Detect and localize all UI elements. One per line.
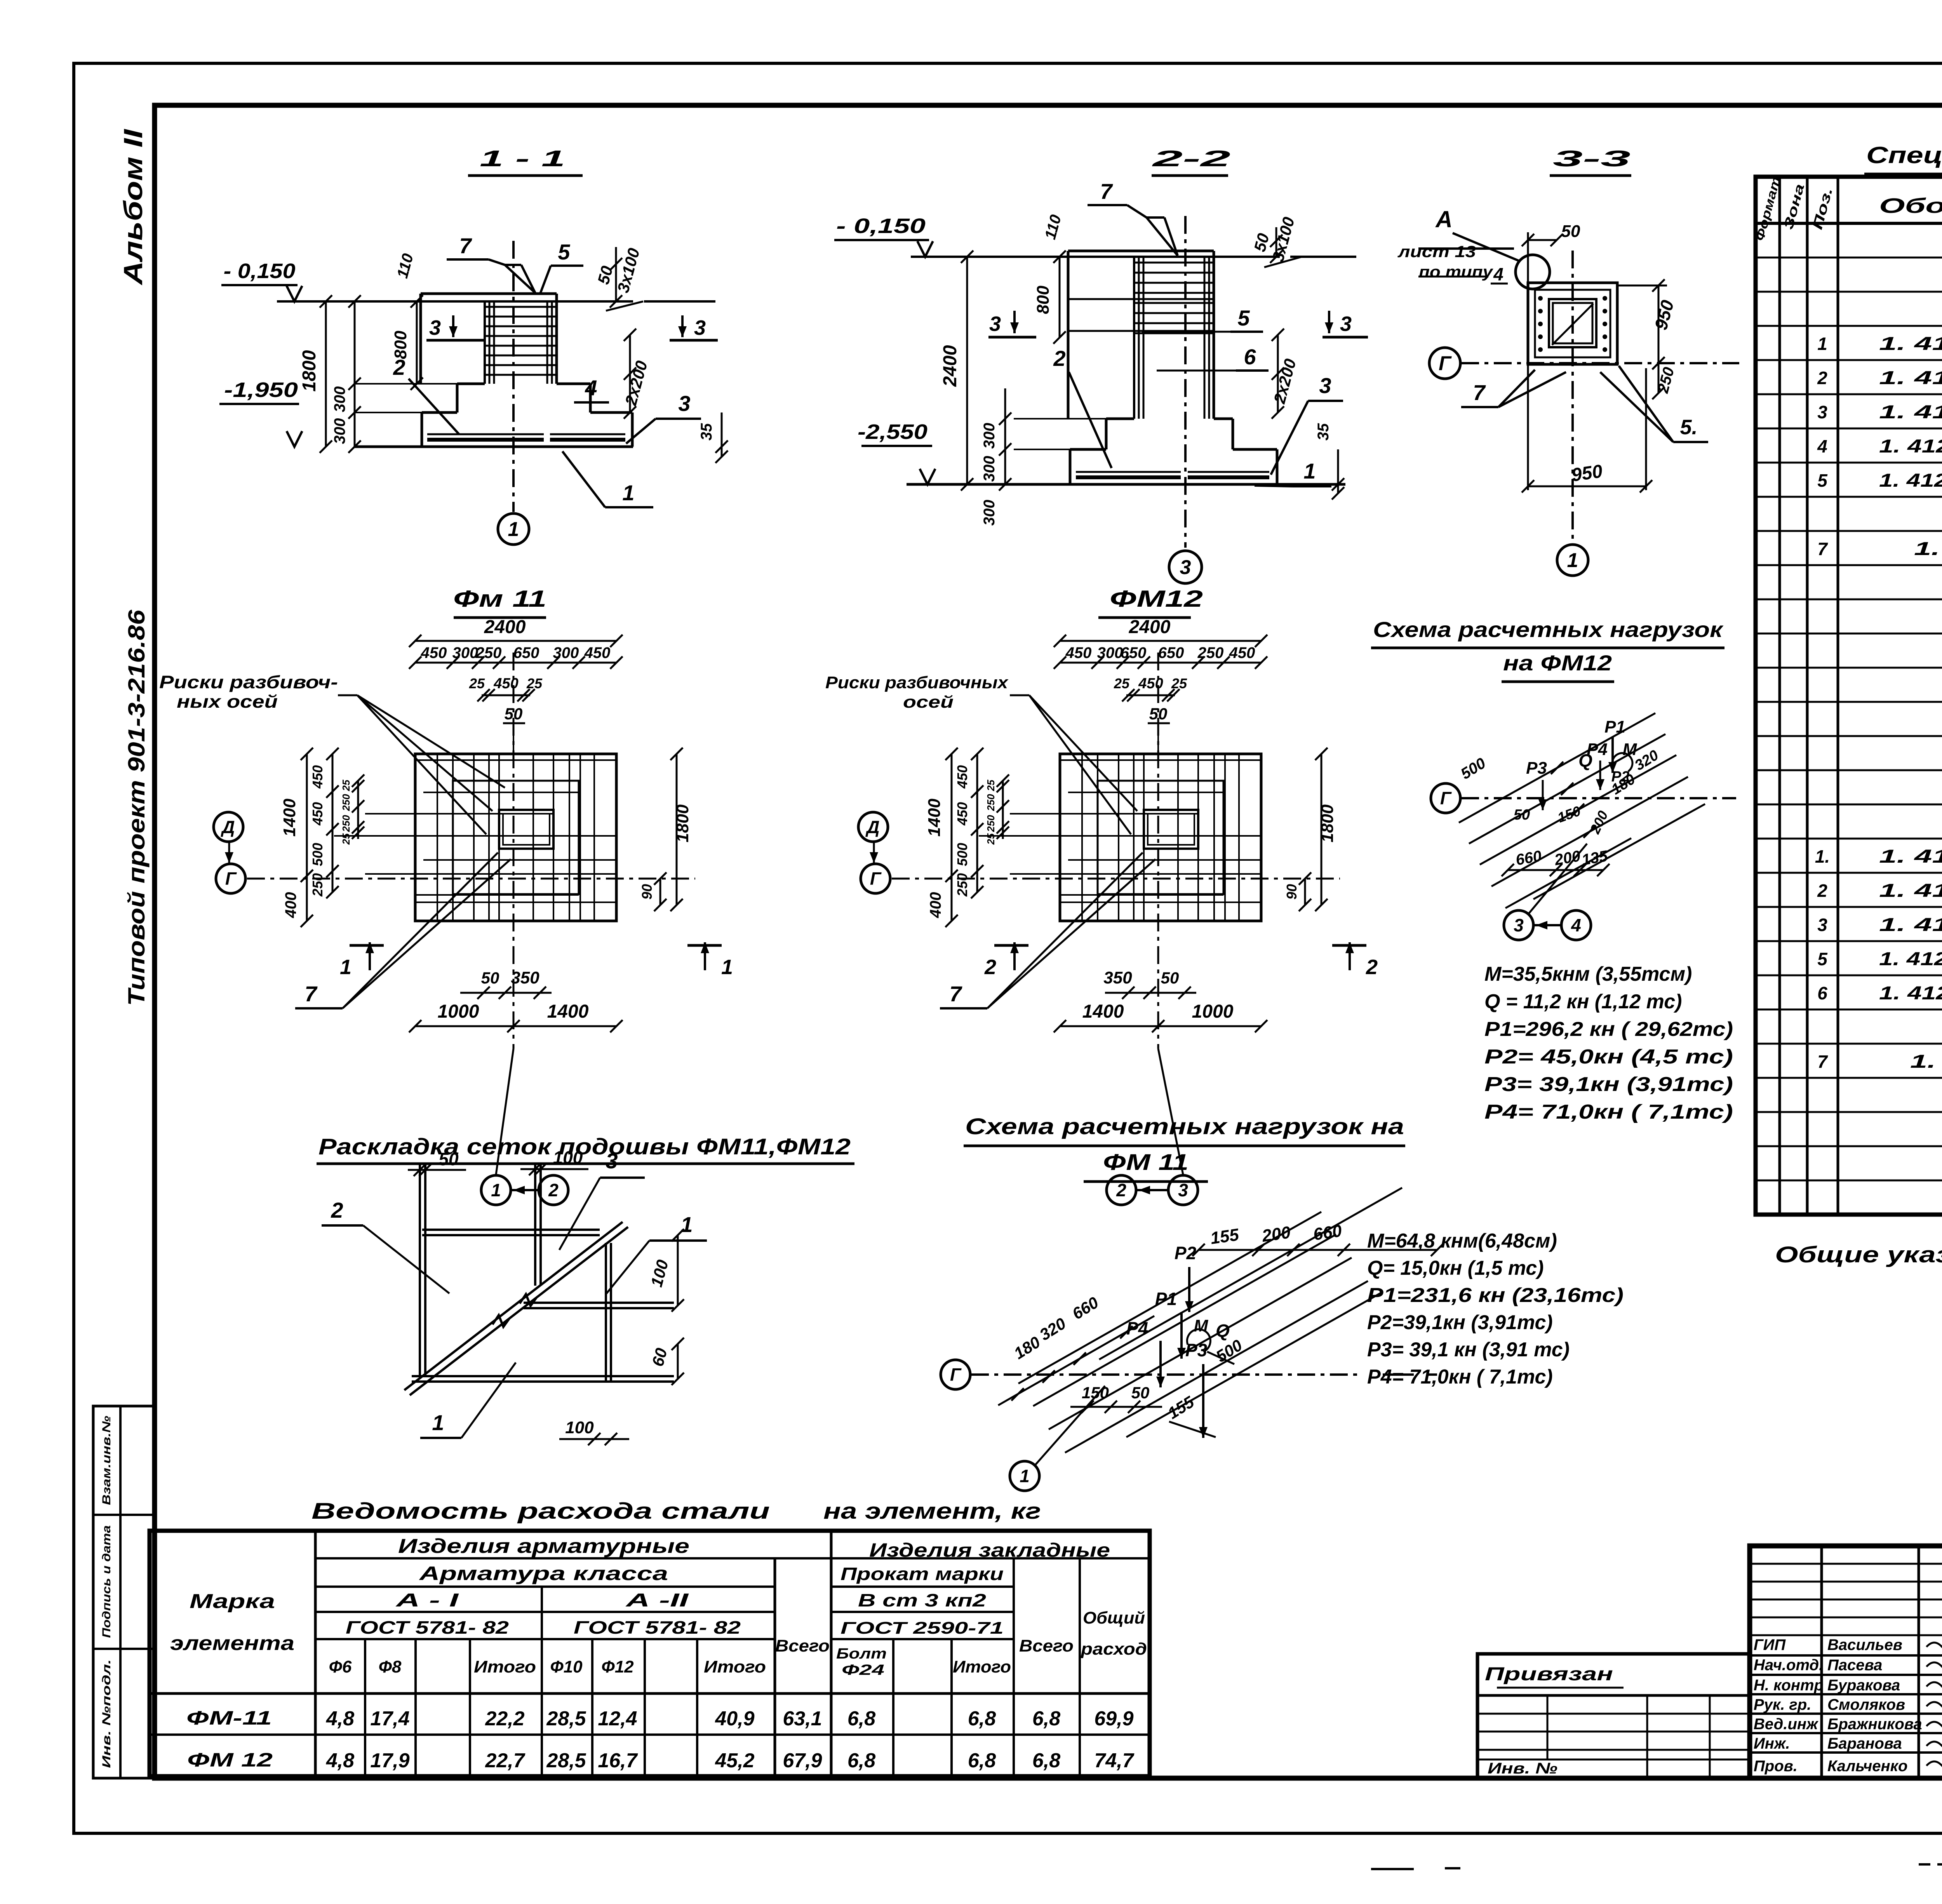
svg-text:6,8: 6,8: [1032, 1707, 1060, 1730]
svg-text:Марка: Марка: [190, 1590, 275, 1613]
load scheme FM11 left diagonal dims: [998, 1316, 1154, 1405]
svg-text:1. 412- 1/77 вып.3: 1. 412- 1/77 вып.3: [1879, 436, 1942, 457]
mesh layout dim 50 top: [408, 1169, 466, 1171]
svg-text:6: 6: [1817, 983, 1827, 1003]
svg-text:1: 1: [432, 1410, 444, 1435]
svg-text:Р4: Р4: [1587, 740, 1608, 759]
svg-text:Привязан: Привязан: [1485, 1664, 1613, 1685]
svg-text:650: 650: [513, 644, 539, 661]
load scheme FM11 axonometric lines: [1018, 1212, 1321, 1384]
svg-text:450: 450: [954, 765, 970, 789]
load scheme FM11 top dim: [1199, 1249, 1437, 1251]
svg-text:3: 3: [1178, 1180, 1188, 1200]
svg-text:2: 2: [548, 1180, 559, 1200]
svg-text:69,9: 69,9: [1094, 1707, 1133, 1730]
svg-text:1: 1: [622, 480, 634, 505]
load scheme FM11 axis Г: [941, 1360, 970, 1389]
left margin stamp boxes: [93, 1406, 155, 1778]
svg-text:Д: Д: [220, 817, 235, 837]
svg-text:400: 400: [927, 892, 944, 919]
svg-text:50: 50: [439, 1149, 459, 1169]
section 2-2 dim 35 right: [1337, 449, 1339, 493]
svg-text:Г: Г: [950, 1364, 962, 1385]
section 3-3 dim 50 top: [1527, 232, 1529, 283]
svg-text:1. 412. 1- 4: 1. 412. 1- 4: [1910, 1051, 1942, 1072]
spec table column lines: [1778, 177, 1781, 1215]
svg-text:450: 450: [310, 765, 325, 789]
section 1-1 dim 1800: [325, 301, 327, 447]
svg-text:450: 450: [493, 675, 518, 692]
spec table header row: [1756, 222, 1942, 225]
svg-text:40,9: 40,9: [715, 1707, 754, 1730]
svg-text:Инв. №подл.: Инв. №подл.: [100, 1659, 113, 1768]
svg-text:4: 4: [585, 376, 597, 400]
svg-text:Всего: Всего: [775, 1636, 830, 1655]
svg-text:1000: 1000: [438, 1001, 479, 1022]
section 2-2 column hatch mesh: [1134, 262, 1214, 264]
svg-text:450: 450: [1138, 675, 1163, 692]
mesh layout dim 100 top: [520, 1168, 588, 1170]
svg-text:М=35,5кнм (3,55тсм): М=35,5кнм (3,55тсм): [1484, 963, 1692, 985]
svg-text:Q: Q: [1216, 1321, 1230, 1341]
mesh layout diagonal bar: [404, 1222, 623, 1390]
svg-text:М=64,8 кнм(6,48см): М=64,8 кнм(6,48см): [1367, 1230, 1557, 1252]
svg-text:22,7: 22,7: [485, 1749, 525, 1772]
svg-text:Р3: Р3: [1185, 1340, 1208, 1360]
svg-text:7: 7: [1817, 539, 1828, 559]
section 2-2 mesh bars in slab: [1076, 471, 1181, 473]
section 3-3 rebar dots: [1538, 296, 1543, 301]
svg-text:1400: 1400: [1082, 1001, 1124, 1022]
svg-text:Р3= 39,1кн (3,91тс): Р3= 39,1кн (3,91тс): [1484, 1073, 1733, 1096]
svg-text:5: 5: [558, 240, 570, 264]
load scheme FM12 force arrows: [1542, 780, 1544, 810]
svg-text:Р3: Р3: [1526, 759, 1547, 778]
load scheme FM11 axis circle 1: [1010, 1461, 1039, 1491]
svg-text:1.: 1.: [1815, 846, 1830, 867]
svg-text:450: 450: [1229, 644, 1255, 661]
svg-text:В ст 3 кп2: В ст 3 кп2: [858, 1590, 987, 1610]
svg-text:1800: 1800: [1318, 804, 1337, 842]
svg-text:25: 25: [1171, 675, 1187, 691]
svg-text:3: 3: [1817, 402, 1827, 422]
load scheme FM12 axis Г: [1431, 783, 1460, 813]
svg-text:250: 250: [1197, 644, 1224, 661]
svg-text:250: 250: [310, 873, 325, 897]
svg-text:2-2: 2-2: [1152, 146, 1230, 171]
svg-text:3: 3: [678, 391, 690, 416]
svg-text:90: 90: [639, 884, 655, 900]
svg-text:12,4: 12,4: [598, 1707, 637, 1730]
svg-text:Р1: Р1: [1604, 717, 1625, 736]
svg-text:25: 25: [1114, 675, 1130, 691]
svg-text:250: 250: [475, 644, 502, 661]
svg-text:Р4= 71,0кн ( 7,1тс): Р4= 71,0кн ( 7,1тс): [1367, 1366, 1553, 1388]
svg-text:7: 7: [459, 233, 472, 258]
spec table frame: [1756, 177, 1942, 1215]
svg-text:1: 1: [1817, 334, 1827, 354]
svg-text:ФМ 12: ФМ 12: [187, 1749, 273, 1771]
section 1-1 step outline: [355, 383, 457, 385]
svg-text:22,2: 22,2: [485, 1707, 524, 1730]
svg-text:650: 650: [1158, 644, 1184, 661]
svg-text:3: 3: [989, 312, 1001, 336]
svg-text:Рук. гр.: Рук. гр.: [1754, 1696, 1811, 1713]
svg-text:Ф24: Ф24: [842, 1662, 884, 1678]
svg-text:50: 50: [1561, 222, 1580, 241]
svg-text:1. 410-2 вып.1: 1. 410-2 вып.1: [1879, 402, 1942, 423]
svg-text:800: 800: [1034, 285, 1053, 314]
svg-text:1: 1: [340, 955, 352, 979]
svg-text:28,5: 28,5: [546, 1707, 586, 1730]
svg-text:5: 5: [1817, 949, 1828, 969]
svg-text:2: 2: [1817, 368, 1827, 388]
svg-text:50: 50: [1514, 807, 1530, 823]
svg-text:1. 412.1- 4: 1. 412.1- 4: [1914, 539, 1942, 559]
svg-text:25: 25: [340, 833, 352, 845]
section 3-3 dim 950 right: [1658, 285, 1660, 363]
svg-text:ГИП: ГИП: [1754, 1636, 1786, 1653]
svg-text:осей: осей: [903, 693, 954, 712]
svg-text:3: 3: [1514, 915, 1524, 935]
svg-text:Ф12: Ф12: [601, 1657, 634, 1676]
svg-text:Типовой проект 901-3-216.86: Типовой проект 901-3-216.86: [124, 609, 150, 1006]
svg-text:Пров.: Пров.: [1754, 1758, 1798, 1775]
svg-text:450: 450: [421, 644, 447, 661]
svg-text:90: 90: [1284, 884, 1300, 900]
svg-text:100: 100: [553, 1147, 583, 1168]
svg-text:Риски разбивочных: Риски разбивочных: [825, 673, 1009, 692]
svg-text:ФМ12: ФМ12: [1110, 586, 1203, 612]
svg-text:1. 410-2 вып.1: 1. 410-2 вып.1: [1879, 368, 1942, 388]
svg-text:950: 950: [1570, 461, 1604, 486]
svg-text:Обозначение: Обозначение: [1879, 194, 1942, 218]
svg-text:3: 3: [606, 1149, 618, 1173]
svg-text:3: 3: [1340, 312, 1352, 336]
svg-text:Ф10: Ф10: [550, 1657, 583, 1676]
svg-text:6,8: 6,8: [968, 1707, 996, 1730]
section 2-2 dims 300 300: [1004, 388, 1006, 484]
section 3-3 dim 950 bottom: [1527, 364, 1529, 490]
svg-text:Ф8: Ф8: [379, 1657, 402, 1676]
svg-text:5: 5: [1817, 470, 1828, 491]
section 2-2 ground line: [911, 256, 1280, 258]
svg-text:35: 35: [698, 423, 715, 440]
privyazan box grid: [1477, 1713, 1749, 1715]
svg-text:7: 7: [1100, 179, 1113, 204]
svg-text:63,1: 63,1: [783, 1707, 822, 1730]
svg-text:Болт: Болт: [836, 1646, 887, 1662]
svg-text:250: 250: [985, 815, 997, 832]
svg-text:250: 250: [340, 794, 352, 811]
svg-text:2: 2: [1366, 955, 1378, 979]
svg-text:350: 350: [1103, 968, 1132, 987]
svg-text:Общий: Общий: [1083, 1608, 1145, 1627]
svg-text:Г: Г: [225, 868, 237, 889]
svg-text:ГОСТ 2590-71: ГОСТ 2590-71: [840, 1619, 1004, 1638]
svg-text:4: 4: [1493, 264, 1503, 284]
svg-text:250: 250: [340, 815, 352, 832]
svg-text:50: 50: [481, 969, 499, 987]
svg-text:7: 7: [1817, 1051, 1828, 1072]
svg-text:Р2=39,1кн (3,91тс): Р2=39,1кн (3,91тс): [1367, 1311, 1553, 1334]
section 3-3 axis Г: [1429, 348, 1460, 379]
svg-text:1. 410-2 вып.1: 1. 410-2 вып.1: [1879, 915, 1942, 935]
svg-text:2400: 2400: [940, 345, 961, 387]
section 2-2 bottom slab: [1014, 449, 1070, 450]
svg-text:300: 300: [981, 456, 998, 482]
section 1-1 mesh bars in slab: [427, 433, 544, 435]
svg-text:7: 7: [949, 982, 962, 1006]
svg-text:-2,550: -2,550: [858, 420, 927, 444]
section 2-2 column outline: [1068, 250, 1214, 252]
svg-text:1 - 1: 1 - 1: [480, 146, 565, 171]
svg-text:1400: 1400: [925, 799, 944, 837]
svg-text:450: 450: [1065, 644, 1092, 661]
svg-text:1. 412 - 1/77 вып.3: 1. 412 - 1/77 вып.3: [1879, 949, 1942, 969]
svg-text:250: 250: [954, 873, 970, 897]
svg-text:3-3: 3-3: [1553, 146, 1631, 171]
svg-text:Схема расчетных нагрузок: Схема расчетных нагрузок: [1373, 617, 1724, 642]
svg-text:Прокат марки: Прокат марки: [840, 1564, 1004, 1584]
svg-text:7: 7: [305, 982, 318, 1006]
svg-text:6,8: 6,8: [847, 1749, 875, 1772]
svg-text:2: 2: [1116, 1180, 1126, 1200]
svg-text:Баранова: Баранова: [1827, 1735, 1902, 1752]
svg-text:-1,950: -1,950: [224, 378, 298, 402]
svg-text:ГОСТ 5781- 82: ГОСТ 5781- 82: [346, 1617, 509, 1638]
svg-text:3: 3: [429, 316, 441, 339]
svg-text:Кальченко: Кальченко: [1827, 1758, 1907, 1775]
svg-text:ГОСТ 5781- 82: ГОСТ 5781- 82: [574, 1617, 741, 1638]
svg-text:45,2: 45,2: [715, 1749, 754, 1772]
svg-text:2: 2: [1053, 346, 1065, 371]
svg-text:ФМ-11: ФМ-11: [186, 1707, 272, 1729]
section 2-2 dim 2400: [966, 257, 968, 484]
mesh layout dims right: [677, 1235, 679, 1305]
svg-text:300: 300: [981, 500, 998, 526]
svg-text:Фм 11: Фм 11: [453, 586, 546, 612]
svg-text:Изделия арматурные: Изделия арматурные: [398, 1535, 689, 1558]
svg-text:25: 25: [985, 780, 997, 791]
svg-text:- 0,150: - 0,150: [836, 214, 926, 238]
svg-text:35: 35: [1315, 423, 1332, 440]
svg-text:5.: 5.: [1680, 416, 1697, 439]
svg-text:1: 1: [491, 1180, 501, 1200]
svg-text:1800: 1800: [299, 350, 320, 392]
svg-text:5: 5: [1237, 306, 1250, 330]
svg-text:3: 3: [694, 316, 706, 339]
section 1-1 dim 35 right: [721, 412, 723, 457]
svg-text:350: 350: [511, 968, 539, 987]
section 1-1 column hatch mesh: [485, 306, 557, 308]
svg-text:300: 300: [452, 644, 479, 661]
svg-text:2: 2: [1817, 881, 1827, 901]
svg-text:1. 410-2 вып.1: 1. 410-2 вып.1: [1879, 846, 1942, 867]
svg-text:6,8: 6,8: [847, 1707, 875, 1730]
svg-text:ных осей: ных осей: [177, 691, 278, 712]
svg-text:50: 50: [1161, 969, 1179, 987]
svg-text:Инж.: Инж.: [1754, 1735, 1790, 1752]
svg-text:Арматура класса: Арматура класса: [418, 1563, 668, 1584]
svg-text:250: 250: [985, 794, 997, 811]
svg-text:Раскладка сеток подошвы ФМ11,Ф: Раскладка сеток подошвы ФМ11,ФМ12: [318, 1134, 851, 1159]
svg-text:Смоляков: Смоляков: [1827, 1696, 1905, 1713]
svg-text:25: 25: [340, 780, 352, 791]
svg-text:1: 1: [1020, 1466, 1030, 1486]
svg-text:1: 1: [680, 1212, 693, 1237]
load scheme FM12 cross ticks: [1551, 762, 1563, 774]
svg-text:17,4: 17,4: [370, 1707, 409, 1730]
svg-text:6: 6: [1244, 345, 1256, 369]
svg-text:2400: 2400: [484, 617, 526, 637]
svg-text:300: 300: [981, 423, 998, 449]
svg-text:650: 650: [1121, 644, 1147, 661]
svg-text:Всего: Всего: [1019, 1636, 1074, 1655]
section 2-2 axis line: [1184, 216, 1187, 548]
section 1-1 dim 2x200 right: [629, 335, 631, 412]
svg-text:2400: 2400: [1129, 617, 1171, 637]
svg-text:Схема расчетных нагрузок на: Схема расчетных нагрузок на: [965, 1114, 1404, 1139]
svg-text:по типу: по типу: [1419, 263, 1494, 281]
svg-text:155: 155: [1209, 1225, 1240, 1248]
svg-text:Инв. №: Инв. №: [1488, 1760, 1557, 1777]
steel table frame: [150, 1531, 1150, 1776]
section 3-3 detail circle: [1516, 255, 1550, 289]
svg-text:А: А: [1435, 206, 1452, 232]
svg-text:100: 100: [565, 1418, 594, 1437]
svg-text:1800: 1800: [673, 804, 692, 842]
svg-text:1: 1: [1303, 459, 1316, 483]
svg-text:16,7: 16,7: [598, 1749, 638, 1772]
svg-text:Подпись и дата: Подпись и дата: [100, 1525, 113, 1638]
svg-text:Д: Д: [865, 817, 879, 837]
svg-text:Ф6: Ф6: [329, 1657, 352, 1676]
svg-text:Изделия закладные: Изделия закладные: [869, 1539, 1110, 1561]
section 2-2 dim 2x200 right: [1277, 335, 1279, 412]
section 3-3 square outline: [1528, 283, 1617, 364]
mesh layout sheet 2 outline: [419, 1164, 421, 1376]
svg-text:500: 500: [310, 843, 325, 866]
svg-text:Васильев: Васильев: [1827, 1636, 1902, 1653]
privyazan box: [1477, 1654, 1749, 1778]
section 1-1 column outline: [421, 292, 557, 295]
load scheme FM12 dims: [1508, 869, 1603, 871]
load scheme FM12 axis circles 3 4: [1504, 910, 1533, 940]
svg-text:25: 25: [526, 675, 543, 691]
title block vertical lines: [1820, 1546, 1823, 1778]
svg-text:300: 300: [331, 386, 348, 412]
svg-text:7: 7: [1473, 380, 1486, 405]
svg-text:4: 4: [1571, 915, 1581, 935]
svg-text:4,8: 4,8: [326, 1707, 354, 1730]
svg-text:Пасева: Пасева: [1827, 1657, 1882, 1674]
svg-text:50: 50: [1131, 1384, 1150, 1402]
svg-text:- 0,150: - 0,150: [224, 259, 296, 283]
svg-text:1: 1: [508, 518, 519, 541]
svg-text:200: 200: [1260, 1223, 1292, 1246]
svg-text:А - I: А - I: [395, 1590, 459, 1611]
section 3-3 dim 250 right: [1658, 363, 1660, 393]
svg-text:300: 300: [331, 418, 348, 444]
section 1-1 bottom slab: [421, 412, 423, 447]
svg-text:25: 25: [985, 833, 997, 845]
svg-text:1. 412- 1/77 вып.3: 1. 412- 1/77 вып.3: [1879, 983, 1942, 1004]
svg-text:Р2= 45,0кн (4,5 тс): Р2= 45,0кн (4,5 тс): [1484, 1046, 1733, 1068]
svg-text:3: 3: [1817, 915, 1827, 935]
title block frame: [1750, 1546, 1942, 1778]
svg-text:Риски разбивоч-: Риски разбивоч-: [159, 672, 338, 692]
svg-text:1. 412 - 1/77 вып.3: 1. 412 - 1/77 вып.3: [1879, 470, 1942, 491]
svg-text:Г: Г: [1439, 352, 1452, 375]
svg-text:2: 2: [331, 1198, 343, 1222]
section 2-2 axis circle 3: [1169, 551, 1202, 583]
svg-text:400: 400: [282, 892, 299, 919]
svg-text:Итого: Итого: [953, 1657, 1011, 1676]
svg-text:3: 3: [1180, 556, 1191, 579]
title block signatures: [1926, 1642, 1942, 1651]
svg-text:Р1: Р1: [1155, 1289, 1177, 1309]
svg-text:Р1=296,2 кн ( 29,62тс): Р1=296,2 кн ( 29,62тс): [1484, 1018, 1733, 1041]
svg-text:500: 500: [954, 843, 970, 866]
svg-text:А -II: А -II: [625, 1590, 689, 1611]
stray dashes bottom: [1371, 1868, 1414, 1870]
svg-text:1: 1: [721, 955, 733, 979]
section 1-1 dim 800: [416, 301, 418, 384]
svg-text:17,9: 17,9: [370, 1749, 409, 1772]
svg-text:1. 410-2 вып.1: 1. 410-2 вып.1: [1879, 334, 1942, 354]
svg-text:67,9: 67,9: [783, 1749, 822, 1772]
svg-text:3: 3: [1319, 373, 1331, 398]
svg-text:Р4= 71,0кн ( 7,1тс): Р4= 71,0кн ( 7,1тс): [1484, 1101, 1733, 1123]
steel table row lines: [315, 1557, 1150, 1559]
svg-text:Ведомость расхода стали: Ведомость расхода стали: [311, 1498, 770, 1524]
svg-text:Бражникова: Бражникова: [1827, 1716, 1922, 1733]
mesh layout sheet 1 outline: [534, 1164, 536, 1286]
svg-text:Р3= 39,1 кн (3,91 тс): Р3= 39,1 кн (3,91 тс): [1367, 1338, 1570, 1361]
svg-text:Взам.инв.№: Взам.инв.№: [100, 1416, 113, 1505]
svg-text:1400: 1400: [547, 1001, 589, 1022]
svg-text:660: 660: [1312, 1221, 1343, 1244]
svg-text:300: 300: [553, 644, 579, 661]
svg-text:Общие указания приведены на: Общие указания приведены на листах 4,5,1…: [1775, 1242, 1942, 1267]
svg-text:6,8: 6,8: [1032, 1749, 1060, 1772]
svg-text:Итого: Итого: [474, 1657, 536, 1676]
svg-text:Итого: Итого: [704, 1657, 766, 1676]
svg-text:74,7: 74,7: [1094, 1749, 1134, 1772]
svg-text:Н. контр: Н. контр: [1754, 1677, 1824, 1694]
svg-text:Р2: Р2: [1611, 769, 1629, 785]
svg-text:450: 450: [954, 802, 970, 826]
svg-text:лист 13: лист 13: [1397, 242, 1476, 261]
svg-text:Q = 11,2 кн (1,12 тс): Q = 11,2 кн (1,12 тс): [1484, 990, 1682, 1013]
svg-text:Q= 15,0кн (1,5 тс): Q= 15,0кн (1,5 тс): [1367, 1257, 1544, 1279]
svg-text:расход: расход: [1081, 1639, 1147, 1659]
svg-text:25: 25: [469, 675, 485, 691]
svg-text:Буракова: Буракова: [1827, 1677, 1900, 1694]
svg-text:28,5: 28,5: [546, 1749, 586, 1772]
svg-text:2: 2: [393, 355, 405, 379]
section 2-2 step outline: [1014, 418, 1106, 419]
svg-text:2: 2: [984, 955, 996, 979]
section 1-1 dims 300 300: [354, 301, 356, 447]
svg-text:элемента: элемента: [170, 1632, 294, 1655]
svg-text:Альбом II: Альбом II: [118, 128, 148, 285]
section 1-1 ground line: [277, 300, 633, 303]
steel table column lines: [314, 1531, 317, 1776]
svg-text:ФМ 11: ФМ 11: [1103, 1150, 1189, 1175]
svg-text:Вед.инж: Вед.инж: [1754, 1716, 1819, 1733]
